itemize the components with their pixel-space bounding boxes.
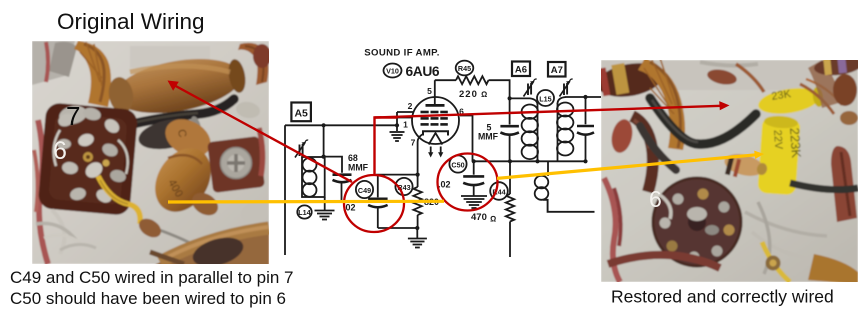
svg-text:C50 should have been wired to: C50 should have been wired to pin 6 — [10, 289, 286, 308]
svg-text:Restored and correctly wired: Restored and correctly wired — [611, 287, 834, 307]
value label 470 ohm — [471, 212, 496, 224]
value label 820 (R43) — [424, 197, 439, 207]
svg-text:L14: L14 — [298, 208, 310, 217]
wire: left AVC rail — [284, 125, 286, 255]
wire: cathode node line pin7/R43/C49 — [376, 174, 418, 176]
svg-text:L15: L15 — [539, 94, 551, 103]
wire: pins 1,2 to ground — [396, 112, 398, 131]
value label 220 ohm — [459, 89, 487, 100]
pin 6 overlay label on left photo — [53, 137, 67, 165]
wire: plate line to R45 — [435, 79, 456, 81]
svg-text:Ω: Ω — [481, 90, 487, 99]
value label 68 MMF — [348, 153, 369, 173]
annotation: yellow arrow from C50 to restored part — [497, 151, 764, 179]
svg-text:7: 7 — [66, 101, 80, 131]
box label A5 — [291, 103, 311, 122]
annotation: red arrow to original part in left photo — [168, 81, 353, 183]
box label A6 — [512, 62, 530, 77]
resistor R45 — [456, 76, 489, 84]
capacitor 5 MMF — [500, 126, 519, 134]
svg-text:C50: C50 — [451, 160, 464, 169]
svg-text:R45: R45 — [458, 64, 471, 73]
wire: C49 bottom to R43 ground node — [378, 228, 418, 239]
value label .02 (C49) — [343, 203, 356, 213]
caption line 1 — [10, 268, 294, 287]
pin 7 overlay label on left photo — [66, 101, 80, 131]
title: Original Wiring — [57, 9, 205, 34]
resistor R43 — [413, 175, 421, 228]
svg-text:MMF: MMF — [478, 132, 499, 142]
tube plate (pin 5) — [426, 80, 445, 105]
coupling coil to detector — [535, 161, 595, 212]
tube V10 6AU6 envelope — [412, 97, 459, 144]
node junction right branch — [583, 159, 587, 163]
caption: restored — [611, 287, 834, 307]
wire: R45 to B+ rail — [489, 80, 510, 98]
capacitor 68 MMF — [324, 157, 352, 201]
annotation: red ellipse around C50 — [438, 154, 498, 211]
left photo: original wiring — [32, 41, 271, 272]
circle label L14 — [297, 205, 311, 218]
tube designation V10 6AU6 — [384, 64, 440, 80]
annotation: red wire trace from tube pins down to C49 — [375, 118, 398, 176]
svg-text:C49 and C50 wired in parallel: C49 and C50 wired in parallel to pin 7 — [10, 268, 294, 287]
svg-text:A7: A7 — [551, 65, 563, 76]
circle label R43 — [395, 178, 412, 195]
wire: grid line from L14 to tube — [285, 124, 397, 126]
circle label C50 — [449, 155, 466, 172]
svg-text:A5: A5 — [294, 108, 308, 120]
value label .02 (C50) — [438, 180, 451, 190]
trimmer A6 — [524, 79, 537, 96]
transformer L15 primary winding — [510, 98, 538, 161]
label: SOUND IF AMP. title — [364, 48, 439, 59]
capacitor C50 — [463, 161, 484, 196]
tube heater filament — [428, 133, 443, 158]
annotation: red ellipse around C49 — [344, 175, 404, 232]
annotation: red arrow to restored part in right photo — [375, 101, 730, 117]
pin number 5 — [427, 86, 432, 96]
svg-text:5: 5 — [427, 86, 432, 96]
node junction L15 primary bottom — [535, 159, 539, 163]
pin number 7 — [411, 138, 416, 148]
svg-text:Ω: Ω — [490, 215, 496, 224]
ground for C49/R43 — [408, 239, 427, 248]
capacitor C49 — [368, 175, 388, 228]
svg-text:220: 220 — [459, 89, 478, 100]
node junction at R43 top — [416, 173, 420, 177]
circle label R44 — [490, 182, 508, 200]
pin number 1 — [403, 120, 408, 130]
pin 7 wire to cathode circuit — [418, 134, 423, 175]
capacitor secondary tuning — [577, 97, 594, 161]
svg-text:470: 470 — [471, 212, 487, 223]
box label A7 — [548, 62, 566, 77]
node junction at L14 coil top — [322, 155, 326, 159]
svg-text:A6: A6 — [515, 65, 527, 76]
ground for L14 — [315, 211, 335, 220]
caption line 2 — [10, 289, 286, 308]
svg-text:6: 6 — [649, 186, 662, 212]
wire: screen supply line — [473, 160, 588, 162]
svg-text:68: 68 — [348, 153, 358, 163]
wire: secondary top line — [566, 96, 602, 98]
circle label C49 — [356, 181, 373, 198]
pin number 2 — [408, 101, 413, 111]
node junction at grid line / L14 top — [322, 123, 326, 127]
svg-text:.02: .02 — [438, 180, 451, 190]
wire: down to 5MMF cap — [509, 98, 511, 124]
svg-text:C49: C49 — [358, 186, 371, 195]
svg-text:2: 2 — [408, 101, 413, 111]
node junction C50 top — [472, 159, 476, 163]
right photo: restored wiring — [595, 55, 858, 284]
svg-text:22V: 22V — [771, 129, 784, 150]
node junction secondary cap top — [583, 95, 587, 99]
pin 6 wire (screen) — [460, 116, 473, 162]
resistor R44 — [506, 161, 514, 257]
circle label L15 — [537, 90, 554, 106]
svg-text:7: 7 — [411, 138, 416, 148]
pin 1 wire — [397, 117, 413, 119]
pin number 6 — [459, 107, 464, 117]
svg-text:6AU6: 6AU6 — [406, 64, 440, 79]
wire: L14 to ground — [324, 197, 326, 211]
wire: 5MMF to screen line — [509, 134, 511, 161]
svg-text:SOUND IF AMP.: SOUND IF AMP. — [364, 48, 439, 59]
svg-text:223K: 223K — [787, 127, 804, 159]
pin 2 wire — [397, 111, 414, 113]
svg-text:6: 6 — [53, 137, 67, 165]
node junction R44 top — [508, 159, 512, 163]
coil L14 secondary winding — [302, 157, 325, 197]
node junction grid line end — [395, 123, 399, 127]
pin 6 overlay label on right photo — [649, 186, 662, 212]
node junction C49/R43 bottom — [415, 226, 419, 230]
wire: down to L14 coil — [323, 125, 325, 156]
annotation: yellow line from original part to C49 area — [168, 200, 444, 204]
tube cathode — [423, 131, 448, 135]
node junction B+ / L15 primary top — [508, 96, 512, 100]
ground for C50 — [461, 196, 487, 208]
svg-text:MMF: MMF — [348, 163, 369, 173]
schematic: Sound IF Amp stage — [285, 48, 601, 258]
transformer L15 secondary winding — [557, 97, 573, 161]
ground at tube pins 1,2 — [390, 132, 405, 141]
value label 5 MMF — [478, 123, 499, 142]
svg-text:1: 1 — [403, 120, 408, 130]
trimmer A7 — [560, 79, 573, 96]
trimmer A5 adjustable core — [295, 140, 308, 157]
tube grids (dashed rows) — [421, 112, 448, 124]
circle label R45 — [456, 61, 474, 76]
svg-text:V10: V10 — [386, 67, 399, 76]
svg-text:Original Wiring: Original Wiring — [57, 9, 205, 34]
